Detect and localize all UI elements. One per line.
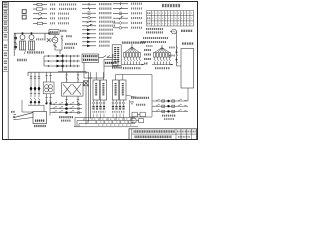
- labels under cabinet B: [112, 111, 125, 113]
- bus tie verticals: [44, 54, 71, 72]
- capacitor bank branch 3: [38, 72, 41, 105]
- legend column 2: [82, 3, 115, 47]
- transformer rating label: [36, 38, 46, 40]
- fan-out 2 meter boxes: [154, 53, 171, 58]
- incoming feeder drops: [15, 33, 17, 50]
- transformer T1: [20, 32, 26, 50]
- title block text: [134, 132, 197, 137]
- feeders under cabinet A: [92, 100, 105, 118]
- emergency chain row 3: [152, 109, 188, 112]
- legend column 3: [113, 2, 142, 29]
- fan-out 2 bottom bus: [152, 64, 173, 66]
- binding margin row separators: [3, 9, 9, 71]
- transformer T2: [29, 32, 35, 50]
- label: elevator room: [181, 30, 193, 32]
- fan-out 1 meter boxes: [124, 53, 141, 58]
- bottom feeder comb: [74, 118, 138, 127]
- ATS section top bus: [28, 72, 89, 76]
- fan-out 1 unit labels: [123, 67, 141, 69]
- label under box: [34, 125, 46, 127]
- label: riser cabinet group 1: [122, 41, 145, 43]
- mains breaker drop: [61, 35, 63, 41]
- riser breaker stack: [176, 46, 178, 63]
- meter panel table title: [162, 4, 181, 7]
- marks inside box: [131, 102, 147, 105]
- legend title: [22, 10, 26, 19]
- diesel generator set box: [49, 30, 59, 35]
- table cell entries: [147, 13, 193, 23]
- LV bus row 3: [44, 65, 80, 68]
- wire generator to bus: [55, 41, 62, 54]
- substation room outline: [14, 33, 58, 56]
- title block: [129, 129, 197, 140]
- wire chain top: [187, 88, 189, 101]
- emergency chain row 1: [152, 99, 188, 102]
- generator G: [45, 33, 58, 47]
- binding margin text column: [3, 2, 7, 71]
- meter panel schedule table: [147, 11, 194, 27]
- label: substation room: [17, 51, 44, 60]
- feeders under cabinet B: [112, 100, 125, 118]
- label: riser cabinet group 2: [141, 29, 168, 46]
- capacitor bank branch 1: [30, 72, 33, 105]
- label under meter cabinet: [112, 66, 122, 68]
- C82/B1 LV cabinet box: [82, 54, 99, 62]
- label: mains: [66, 35, 72, 37]
- wire to cabinets: [88, 66, 104, 78]
- transfer switch knife: [13, 113, 33, 120]
- capacitor collector wire: [22, 100, 44, 112]
- label under chains: [162, 116, 176, 119]
- legend column 1: [33, 3, 77, 24]
- fan-out 2 breakers: [155, 57, 171, 64]
- fan-out 2 unit labels: [155, 67, 170, 69]
- feeder line below buses: [58, 72, 86, 75]
- border frame: [3, 2, 198, 140]
- label: LV main incoming: [64, 44, 77, 48]
- label: dual-power box right: [182, 42, 194, 44]
- LV bus row 1: [44, 55, 80, 58]
- capacitor bank branch 2: [34, 72, 37, 105]
- leader to label: [126, 95, 149, 98]
- riser wire right of ATS: [86, 72, 91, 124]
- distribution fan-out 1: [125, 44, 140, 53]
- wire from changeover down: [84, 54, 113, 78]
- wire elevator riser: [176, 32, 178, 67]
- comb labels: [94, 119, 134, 125]
- pump labels column: [144, 50, 151, 64]
- cabinet pair B: [112, 75, 152, 101]
- ATS dual transfer box: [62, 72, 84, 104]
- changeover switch symbol: [99, 56, 112, 58]
- fan-out 1 bottom bus: [122, 64, 144, 66]
- emergency feeder rows: [50, 102, 82, 115]
- label: emergency lighting box: [59, 117, 73, 120]
- metering branch pair: [43, 72, 54, 104]
- emergency chain row 2: [152, 104, 188, 107]
- LV bus row 2: [44, 60, 80, 63]
- fan-out 1 breakers: [125, 57, 141, 64]
- small boxes row at bottom of box: [131, 112, 145, 122]
- shaft tall box: [181, 49, 194, 89]
- riser side labels: [169, 48, 175, 56]
- labels under cabinet A: [93, 111, 106, 113]
- bottom-left distribution box: [33, 112, 47, 124]
- node dot on incoming bus: [48, 32, 50, 34]
- right side distribution box: [130, 78, 153, 117]
- distribution fan-out 2: [155, 45, 170, 53]
- label: generator room: [60, 30, 67, 32]
- cabinet pair A: [93, 72, 107, 100]
- elevator motor M: [170, 29, 176, 34]
- wire into shaft box: [177, 65, 182, 67]
- dual supply changeover box: [104, 60, 118, 67]
- meter cabinet tall box: [112, 45, 121, 66]
- marks beside knife: [11, 111, 15, 113]
- junction block: [84, 81, 89, 86]
